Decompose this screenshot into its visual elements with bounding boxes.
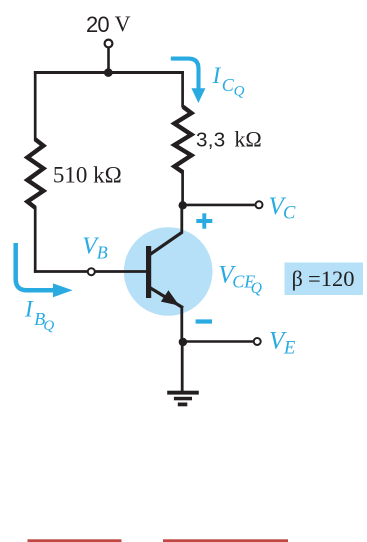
svg-text:20: 20 [86, 12, 109, 37]
svg-text:I: I [24, 297, 34, 322]
node VCC junction dot [104, 68, 113, 77]
node VB terminal circle [88, 268, 95, 275]
svg-text:β: β [292, 266, 303, 291]
transistor Q1 collector lead [149, 232, 182, 255]
svg-text:kΩ: kΩ [234, 127, 261, 152]
transistor Q1 emitter lead [149, 287, 183, 308]
terminal VC circle [256, 201, 263, 208]
wire left branch lower [34, 207, 37, 273]
wire to ground [181, 341, 184, 391]
wire right branch upper [181, 71, 184, 108]
node emitter dot [179, 338, 188, 347]
beta box [285, 263, 364, 296]
transistor Q1 base bar [146, 246, 151, 298]
svg-text:B: B [97, 242, 108, 262]
svg-text:E: E [283, 339, 295, 359]
wire top bus [34, 71, 184, 74]
wire emitter tap to VE [183, 340, 254, 343]
transistor Q1 emitter arrowhead [161, 290, 179, 305]
resistor RC 3,3k zigzag [174, 107, 191, 173]
svg-text:510 kΩ: 510 kΩ [53, 162, 122, 187]
terminal VE circle [254, 338, 261, 345]
transistor Q1 highlight circle [124, 227, 213, 316]
label V_E [269, 328, 295, 359]
label I_CQ [212, 63, 245, 100]
minus sign [196, 319, 212, 323]
plus sign [196, 213, 212, 228]
red underline right [163, 539, 288, 542]
node collector dot [179, 201, 187, 209]
label 20 V [86, 11, 131, 37]
wire left branch upper [34, 71, 37, 141]
wire emitter vertical [180, 306, 183, 343]
wire collector tap to VC [183, 204, 255, 207]
wire VCC terminal to bus [107, 48, 110, 74]
svg-text:C: C [283, 204, 296, 224]
label I_BQ [24, 297, 54, 334]
svg-text:3,3: 3,3 [196, 129, 226, 152]
resistor RB 510k zigzag [27, 139, 43, 207]
label 3,3 kOhm [196, 127, 262, 152]
svg-text:Q: Q [251, 280, 262, 297]
terminal VCC [105, 40, 113, 48]
ground symbol [167, 391, 199, 407]
label V_CEQ [218, 262, 262, 297]
wire collector vertical [180, 204, 183, 234]
arrow I_CQ [171, 59, 206, 103]
red underline left [28, 539, 122, 542]
label V_B [82, 233, 108, 262]
svg-text:Q: Q [234, 84, 245, 100]
wire RC bottom to collector node [181, 171, 184, 208]
svg-text:=120: =120 [308, 266, 354, 291]
label beta = 120 [292, 266, 355, 291]
label V_C [269, 193, 297, 224]
svg-text:I: I [212, 63, 222, 88]
svg-text:Q: Q [43, 318, 54, 334]
svg-text:V: V [115, 11, 131, 36]
wire base [34, 270, 147, 273]
arrow I_BQ [16, 243, 73, 297]
